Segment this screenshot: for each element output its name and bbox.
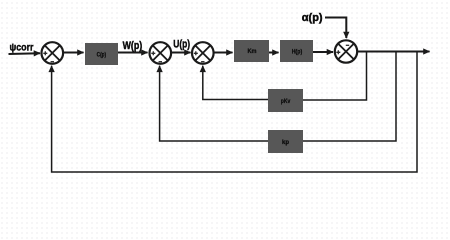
svg-text:pKv: pKv	[281, 99, 291, 105]
svg-text:ψcorr: ψcorr	[10, 42, 34, 54]
svg-text:W(p): W(p)	[123, 40, 143, 52]
svg-text:U(p): U(p)	[173, 38, 190, 50]
svg-text:kp: kp	[282, 140, 289, 146]
svg-text:Km: Km	[248, 48, 257, 55]
svg-text:α(p): α(p)	[302, 12, 323, 24]
svg-text:C(p): C(p)	[97, 52, 107, 58]
svg-text:H(p): H(p)	[292, 49, 303, 55]
